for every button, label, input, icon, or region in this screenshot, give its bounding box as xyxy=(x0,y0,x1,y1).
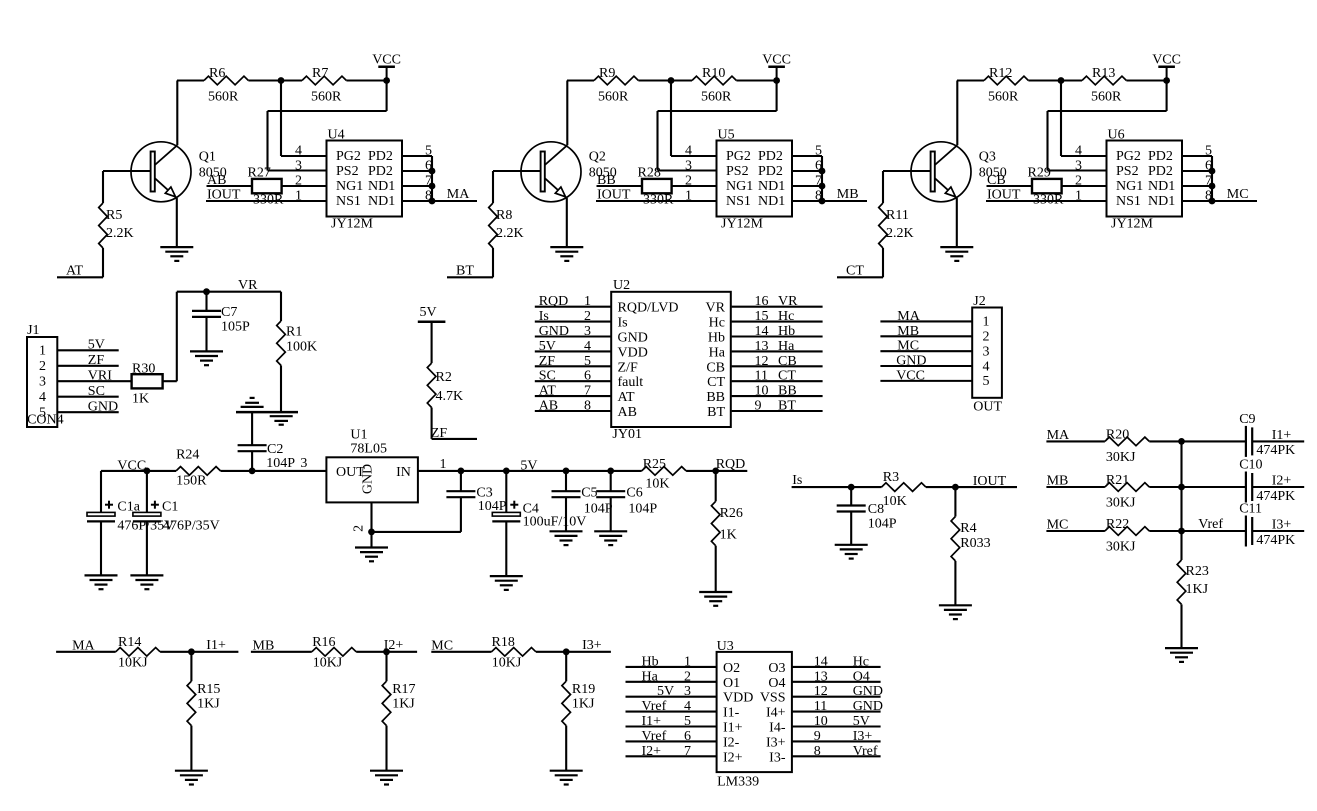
svg-text:VCC: VCC xyxy=(1152,53,1181,68)
node junction R12/R13 xyxy=(1058,77,1065,84)
power VCC xyxy=(768,65,785,68)
svg-text:4: 4 xyxy=(584,339,591,354)
wire pin2 xyxy=(672,185,717,187)
svg-text:JY12M: JY12M xyxy=(331,217,374,232)
svg-text:2.2K: 2.2K xyxy=(496,226,524,241)
svg-text:I2+: I2+ xyxy=(723,750,743,765)
transistor Q2 xyxy=(521,142,581,202)
svg-text:R30: R30 xyxy=(132,362,155,377)
resistor R16 10KJ xyxy=(312,648,356,657)
svg-text:Q3: Q3 xyxy=(979,150,996,165)
svg-text:CT: CT xyxy=(846,264,864,279)
ground C1 xyxy=(130,574,163,576)
svg-text:ND1: ND1 xyxy=(758,179,785,194)
resistor R2 4.7K xyxy=(427,363,436,407)
wire net I2+ bottom xyxy=(356,651,417,653)
svg-text:I3+: I3+ xyxy=(1272,517,1292,532)
wire net I3+ xyxy=(1252,530,1304,532)
svg-text:I1+: I1+ xyxy=(1272,428,1292,443)
svg-text:3: 3 xyxy=(1075,159,1082,174)
svg-text:C2: C2 xyxy=(267,442,283,457)
wire net MC bottom xyxy=(431,651,491,653)
svg-text:104P: 104P xyxy=(868,517,897,532)
wire net I2+ xyxy=(1252,486,1304,488)
svg-text:12: 12 xyxy=(814,684,828,699)
wire net IOUT pin1 xyxy=(986,200,1107,202)
resistor R25 10K xyxy=(642,467,686,476)
svg-text:C8: C8 xyxy=(868,502,884,517)
svg-text:R4: R4 xyxy=(960,521,976,536)
svg-text:Hb: Hb xyxy=(708,331,725,346)
wire net IOUT pin1 xyxy=(206,200,327,202)
svg-text:C7: C7 xyxy=(221,305,237,320)
svg-text:10KJ: 10KJ xyxy=(492,656,522,671)
svg-text:ND1: ND1 xyxy=(368,179,395,194)
svg-text:NG1: NG1 xyxy=(726,179,753,194)
wires U3 left pins xyxy=(626,666,717,668)
svg-text:J2: J2 xyxy=(973,294,985,309)
svg-text:2: 2 xyxy=(295,174,302,189)
node C2 junction xyxy=(249,468,256,475)
svg-text:R1: R1 xyxy=(286,325,302,340)
wire Vref bus xyxy=(1180,441,1182,531)
node junction R6/R7 xyxy=(278,77,285,84)
svg-text:PD2: PD2 xyxy=(758,149,783,164)
svg-text:C6: C6 xyxy=(626,486,642,501)
svg-text:GND: GND xyxy=(88,400,118,415)
IC U6 JY12M xyxy=(1107,141,1183,217)
wire emitter Q1 xyxy=(176,198,178,247)
svg-text:MC: MC xyxy=(431,638,453,653)
svg-text:R25: R25 xyxy=(643,457,666,472)
svg-text:1: 1 xyxy=(684,654,691,669)
svg-text:I4+: I4+ xyxy=(766,706,786,721)
svg-text:10KJ: 10KJ xyxy=(118,656,148,671)
svg-text:1: 1 xyxy=(1075,189,1082,204)
svg-text:R11: R11 xyxy=(886,208,909,223)
svg-text:O1: O1 xyxy=(723,676,740,691)
svg-text:1KJ: 1KJ xyxy=(197,697,220,712)
ground R15 xyxy=(175,770,208,772)
node C8 xyxy=(848,484,855,491)
svg-text:VCC: VCC xyxy=(896,368,925,383)
power VCC xyxy=(1158,65,1175,68)
svg-text:2: 2 xyxy=(584,309,591,324)
svg-text:1: 1 xyxy=(584,294,591,309)
svg-text:VCC: VCC xyxy=(117,458,146,473)
svg-text:I1+: I1+ xyxy=(206,638,226,653)
ground C6 xyxy=(594,530,627,532)
wires U2 left pins xyxy=(535,306,611,308)
svg-text:R6: R6 xyxy=(209,66,225,81)
svg-text:PG2: PG2 xyxy=(1116,149,1141,164)
svg-text:3: 3 xyxy=(684,684,691,699)
resistor R9 xyxy=(594,76,638,85)
svg-text:C1: C1 xyxy=(162,500,178,515)
capacitor C1a 476P/35V xyxy=(100,471,102,513)
wire net MC xyxy=(1212,200,1257,202)
svg-text:7: 7 xyxy=(584,384,591,399)
svg-text:VCC: VCC xyxy=(372,53,401,68)
svg-text:MB: MB xyxy=(837,187,859,202)
svg-text:8: 8 xyxy=(584,399,591,414)
svg-text:10: 10 xyxy=(814,714,828,729)
resistor R18 10KJ xyxy=(492,648,536,657)
wire collector Q1 xyxy=(176,81,178,146)
svg-text:R5: R5 xyxy=(106,208,122,223)
svg-text:2: 2 xyxy=(685,174,692,189)
wire net I1+ xyxy=(1252,440,1304,442)
svg-text:fault: fault xyxy=(618,375,644,390)
svg-text:474PK: 474PK xyxy=(1256,533,1295,548)
svg-text:IN: IN xyxy=(396,465,411,480)
svg-text:10: 10 xyxy=(755,384,769,399)
ground C7 xyxy=(190,350,223,352)
svg-text:7: 7 xyxy=(684,744,691,759)
svg-text:104P: 104P xyxy=(478,499,507,514)
svg-text:13: 13 xyxy=(814,669,828,684)
ground C4 xyxy=(490,575,523,577)
node junction R9/R10 xyxy=(668,77,675,84)
node C6 xyxy=(607,468,614,475)
ground R17 xyxy=(370,770,403,772)
wire net MB xyxy=(822,200,867,202)
svg-text:C10: C10 xyxy=(1239,458,1262,473)
svg-text:2: 2 xyxy=(352,525,367,532)
svg-text:Is: Is xyxy=(618,316,628,331)
svg-text:2: 2 xyxy=(684,669,691,684)
wires U3 right pins xyxy=(792,666,881,668)
svg-text:RQD: RQD xyxy=(716,457,746,472)
svg-text:MB: MB xyxy=(253,638,275,653)
resistor R13 xyxy=(1082,76,1126,85)
svg-text:VDD: VDD xyxy=(723,691,753,706)
svg-text:R15: R15 xyxy=(197,682,220,697)
svg-text:I2+: I2+ xyxy=(642,744,662,759)
svg-text:105P: 105P xyxy=(221,320,250,335)
svg-text:3: 3 xyxy=(983,344,990,359)
svg-text:Ha: Ha xyxy=(709,345,726,360)
svg-text:U1: U1 xyxy=(350,428,367,443)
svg-text:6: 6 xyxy=(584,369,591,384)
svg-text:NG1: NG1 xyxy=(1116,179,1143,194)
wire pin4 drop xyxy=(280,81,282,157)
svg-text:R23: R23 xyxy=(1186,564,1209,579)
wire collector rail Q2 xyxy=(567,79,594,81)
wire collector Q3 xyxy=(956,81,958,146)
ground R23 xyxy=(1165,647,1198,649)
svg-text:NS1: NS1 xyxy=(1116,194,1141,209)
svg-text:Q2: Q2 xyxy=(589,150,606,165)
node RQD xyxy=(712,468,719,475)
svg-text:5: 5 xyxy=(983,374,990,389)
resistor R3 10K xyxy=(882,483,926,492)
ground emitter Q3 xyxy=(940,246,973,248)
wire node AT xyxy=(57,276,103,278)
svg-text:1: 1 xyxy=(983,315,990,330)
svg-text:3: 3 xyxy=(39,375,46,390)
resistor R23 1KJ xyxy=(1180,531,1182,560)
capacitor C11 474PK xyxy=(1182,530,1246,532)
svg-text:16: 16 xyxy=(755,294,769,309)
svg-text:30KJ: 30KJ xyxy=(1106,496,1136,511)
svg-text:2.2K: 2.2K xyxy=(886,226,914,241)
resistor R24 150R xyxy=(176,467,220,476)
svg-text:9: 9 xyxy=(755,399,762,414)
svg-text:CB: CB xyxy=(987,173,1006,188)
svg-text:6: 6 xyxy=(684,729,691,744)
svg-text:MA: MA xyxy=(72,638,95,653)
svg-text:15: 15 xyxy=(755,309,769,324)
resistor R7 xyxy=(302,76,346,85)
resistor R29 330R xyxy=(1032,179,1062,193)
svg-text:O4: O4 xyxy=(768,676,785,691)
ground C5 xyxy=(550,530,583,532)
svg-text:R19: R19 xyxy=(572,682,595,697)
svg-text:VR: VR xyxy=(778,294,798,309)
capacitor C9 474PK xyxy=(1182,440,1246,442)
svg-text:Vref: Vref xyxy=(642,699,667,714)
svg-text:5: 5 xyxy=(584,354,591,369)
wires pins 5-8 U4 xyxy=(402,155,432,157)
svg-text:100uF/10V: 100uF/10V xyxy=(523,515,587,530)
svg-text:4: 4 xyxy=(1075,144,1082,159)
wire net MA xyxy=(432,200,477,202)
svg-text:3: 3 xyxy=(584,324,591,339)
wire GND to C3 xyxy=(372,531,461,533)
svg-text:560R: 560R xyxy=(311,90,342,105)
svg-text:OUT: OUT xyxy=(973,400,1002,415)
svg-text:R26: R26 xyxy=(720,506,743,521)
wires J1 pins xyxy=(57,349,118,351)
svg-text:PS2: PS2 xyxy=(1116,164,1139,179)
capacitor C4 100uF/10V xyxy=(505,471,507,513)
transistor Q3 xyxy=(911,142,971,202)
svg-text:IOUT: IOUT xyxy=(597,188,631,203)
capacitor C8 104P xyxy=(850,487,852,505)
svg-text:O3: O3 xyxy=(768,661,785,676)
node C4 xyxy=(503,468,510,475)
wires J2 pins xyxy=(880,320,972,322)
ground U1 xyxy=(370,532,372,548)
svg-text:10K: 10K xyxy=(645,477,669,492)
wire net I1+ bottom xyxy=(160,651,238,653)
svg-text:1: 1 xyxy=(440,457,447,472)
capacitor C10 474PK xyxy=(1182,486,1246,488)
svg-text:R10: R10 xyxy=(702,66,725,81)
svg-text:3: 3 xyxy=(295,159,302,174)
wire node BT xyxy=(447,276,493,278)
svg-text:BB: BB xyxy=(706,390,725,405)
wire collector rail Q3 xyxy=(957,79,984,81)
svg-text:10KJ: 10KJ xyxy=(313,656,343,671)
connector J2 OUT xyxy=(972,308,1002,398)
svg-text:4.7K: 4.7K xyxy=(436,389,464,404)
svg-text:CB: CB xyxy=(778,354,797,369)
svg-text:O2: O2 xyxy=(723,661,740,676)
svg-text:Vref: Vref xyxy=(1198,517,1223,532)
IC U5 JY12M xyxy=(717,141,793,217)
svg-text:U4: U4 xyxy=(328,128,345,143)
svg-text:MA: MA xyxy=(897,309,920,324)
wire net Is xyxy=(792,486,882,488)
svg-text:Hc: Hc xyxy=(853,654,869,669)
svg-text:8: 8 xyxy=(814,744,821,759)
ground emitter Q1 xyxy=(160,246,193,248)
svg-text:U6: U6 xyxy=(1108,128,1125,143)
svg-text:I1-: I1- xyxy=(723,706,740,721)
svg-text:11: 11 xyxy=(814,699,827,714)
svg-text:MA: MA xyxy=(1047,428,1070,443)
capacitor C2 104P xyxy=(251,412,253,445)
resistor R26 1K xyxy=(715,471,717,501)
svg-text:RQD: RQD xyxy=(539,294,569,309)
svg-text:R3: R3 xyxy=(883,470,899,485)
svg-text:I3-: I3- xyxy=(769,750,786,765)
wire net I3+ bottom xyxy=(536,651,611,653)
svg-text:R14: R14 xyxy=(118,635,141,650)
svg-text:2.2K: 2.2K xyxy=(106,226,134,241)
svg-text:13: 13 xyxy=(755,339,769,354)
ground R26 xyxy=(699,591,732,593)
svg-text:Hb: Hb xyxy=(778,324,795,339)
svg-text:GND: GND xyxy=(896,354,926,369)
svg-text:R27: R27 xyxy=(248,166,271,181)
capacitor C3 104P xyxy=(460,471,462,491)
svg-text:9: 9 xyxy=(814,729,821,744)
wires U2 right pins xyxy=(732,306,823,308)
svg-text:NS1: NS1 xyxy=(336,194,361,209)
resistor R21 30KJ xyxy=(1105,483,1149,492)
svg-text:NS1: NS1 xyxy=(726,194,751,209)
svg-text:AB: AB xyxy=(539,399,558,414)
node R4 xyxy=(952,484,959,491)
svg-text:CB: CB xyxy=(706,360,725,375)
svg-text:30KJ: 30KJ xyxy=(1106,540,1136,555)
svg-text:R28: R28 xyxy=(638,166,661,181)
resistor R5 xyxy=(102,171,104,203)
svg-text:J1: J1 xyxy=(27,323,39,338)
resistor R22 30KJ xyxy=(1105,527,1149,536)
svg-text:I3+: I3+ xyxy=(766,735,786,750)
svg-text:5V: 5V xyxy=(657,684,674,699)
svg-text:BB: BB xyxy=(778,384,797,399)
wire output bus xyxy=(431,156,433,201)
svg-text:R9: R9 xyxy=(599,66,615,81)
wire output bus xyxy=(1211,156,1213,201)
svg-text:AB: AB xyxy=(207,173,226,188)
capacitor C5 104P xyxy=(565,471,567,491)
resistor R28 330R xyxy=(642,179,672,193)
wire collector Q2 xyxy=(566,81,568,146)
svg-text:1K: 1K xyxy=(720,528,737,543)
node C3 xyxy=(458,468,465,475)
svg-text:PD2: PD2 xyxy=(758,164,783,179)
svg-text:I2-: I2- xyxy=(723,735,740,750)
capacitor C6 104P xyxy=(610,471,612,491)
wire collector rail Q1 xyxy=(177,79,204,81)
svg-text:474PK: 474PK xyxy=(1256,443,1295,458)
svg-text:560R: 560R xyxy=(208,90,239,105)
svg-text:Ha: Ha xyxy=(778,339,795,354)
wire base Q1 xyxy=(103,170,151,172)
resistor R12 xyxy=(984,76,1028,85)
wire net AB xyxy=(207,185,253,187)
wire net MA bottom xyxy=(56,651,116,653)
resistor R6 xyxy=(204,76,248,85)
svg-text:14: 14 xyxy=(814,654,828,669)
wire net BB xyxy=(597,185,643,187)
svg-text:I3+: I3+ xyxy=(853,729,873,744)
svg-text:LM339: LM339 xyxy=(717,775,759,790)
svg-text:5V: 5V xyxy=(853,714,870,729)
svg-text:GND: GND xyxy=(853,699,883,714)
wire emitter Q3 xyxy=(956,198,958,247)
svg-text:VR: VR xyxy=(706,301,726,316)
svg-text:AT: AT xyxy=(618,390,636,405)
svg-text:4: 4 xyxy=(295,144,302,159)
svg-text:Hb: Hb xyxy=(642,654,659,669)
svg-text:VRI: VRI xyxy=(88,369,112,384)
svg-text:ND1: ND1 xyxy=(368,194,395,209)
wire net CB xyxy=(987,185,1033,187)
svg-text:ZF: ZF xyxy=(88,353,105,368)
svg-text:Vref: Vref xyxy=(642,729,667,744)
wire net IOUT xyxy=(926,486,1017,488)
svg-text:I2+: I2+ xyxy=(384,638,404,653)
IC U4 JY12M xyxy=(327,141,403,217)
svg-text:30KJ: 30KJ xyxy=(1106,450,1136,465)
svg-text:I1+: I1+ xyxy=(642,714,662,729)
svg-text:Hc: Hc xyxy=(709,316,725,331)
svg-text:1: 1 xyxy=(685,189,692,204)
svg-text:VR: VR xyxy=(238,278,258,293)
svg-text:BT: BT xyxy=(456,264,474,279)
svg-text:C11: C11 xyxy=(1239,502,1262,517)
ground R1 shared bar xyxy=(236,411,298,414)
svg-text:ND1: ND1 xyxy=(1148,194,1175,209)
svg-text:1KJ: 1KJ xyxy=(1186,582,1209,597)
resistor R27 330R xyxy=(252,179,282,193)
transistor Q1 xyxy=(131,142,191,202)
resistor R30 1K xyxy=(132,374,163,388)
svg-text:BB: BB xyxy=(597,173,616,188)
svg-text:150R: 150R xyxy=(176,473,207,488)
svg-text:I1+: I1+ xyxy=(723,721,743,736)
svg-text:R18: R18 xyxy=(492,635,515,650)
svg-text:R2: R2 xyxy=(436,370,452,385)
svg-text:R033: R033 xyxy=(960,536,990,551)
wire net MA xyxy=(1046,440,1105,442)
wire net MC xyxy=(1046,530,1105,532)
svg-text:PD2: PD2 xyxy=(368,149,393,164)
ground emitter Q2 xyxy=(550,246,583,248)
svg-text:RQD/LVD: RQD/LVD xyxy=(618,301,679,316)
svg-text:U5: U5 xyxy=(718,128,735,143)
resistor R15 1KJ xyxy=(190,652,192,681)
svg-text:JY12M: JY12M xyxy=(1111,217,1154,232)
svg-text:5V: 5V xyxy=(88,338,105,353)
svg-text:1K: 1K xyxy=(132,392,149,407)
svg-text:GND: GND xyxy=(539,324,569,339)
wire net VR xyxy=(177,291,281,293)
wire pin4 drop xyxy=(1060,81,1062,157)
wire output bus xyxy=(821,156,823,201)
svg-text:Q1: Q1 xyxy=(199,150,216,165)
resistor R1 100K xyxy=(280,292,282,321)
svg-text:12: 12 xyxy=(755,354,769,369)
svg-text:2: 2 xyxy=(983,330,990,345)
